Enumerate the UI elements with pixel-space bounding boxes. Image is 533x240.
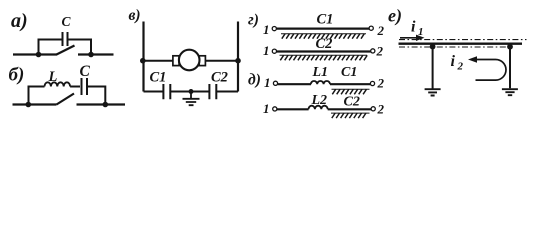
wire bbox=[13, 53, 57, 55]
capacitor C bbox=[63, 32, 68, 46]
wire left vertical bbox=[142, 22, 144, 92]
wire vertical left bbox=[432, 47, 434, 89]
terminal bbox=[272, 27, 276, 31]
ground plane hatch bbox=[331, 112, 370, 114]
wire line bbox=[399, 43, 523, 45]
svg-text:1: 1 bbox=[263, 43, 270, 58]
svg-text:2: 2 bbox=[457, 61, 464, 73]
svg-text:С1: С1 bbox=[317, 12, 334, 28]
switch contact bbox=[57, 94, 75, 105]
ground plane hatch bbox=[332, 88, 370, 90]
current loop arrow i2 bbox=[475, 60, 506, 81]
svg-text:д): д) bbox=[248, 72, 261, 89]
dashed line lower bbox=[399, 46, 511, 48]
ground right bbox=[502, 89, 518, 95]
terminal bbox=[273, 81, 277, 85]
svg-text:С1: С1 bbox=[341, 65, 357, 80]
wire bbox=[330, 83, 370, 85]
svg-text:С: С bbox=[62, 14, 72, 29]
svg-text:2: 2 bbox=[377, 102, 385, 117]
node left bbox=[36, 52, 42, 58]
node right bbox=[103, 102, 109, 108]
inductor L2 bbox=[309, 106, 328, 110]
node right bbox=[235, 58, 241, 64]
capacitor C1 bbox=[163, 84, 170, 99]
inductor L1 bbox=[311, 81, 330, 84]
svg-text:С2: С2 bbox=[344, 95, 360, 110]
svg-text:i: i bbox=[411, 19, 416, 36]
dashed line upper bbox=[399, 39, 527, 41]
svg-text:L1: L1 bbox=[312, 65, 329, 80]
svg-text:L2: L2 bbox=[311, 93, 328, 108]
ground plane hatch bbox=[281, 33, 366, 35]
wire vertical right bbox=[509, 47, 511, 89]
machine M1 bbox=[179, 50, 200, 71]
wire bbox=[144, 60, 174, 62]
wire bbox=[77, 103, 126, 105]
svg-text:1: 1 bbox=[263, 22, 270, 37]
svg-text:б): б) bbox=[9, 65, 25, 86]
wire bbox=[205, 60, 238, 62]
ground bbox=[183, 92, 200, 106]
brush left bbox=[173, 56, 179, 66]
terminal bbox=[272, 49, 276, 53]
wire right vertical bbox=[237, 22, 239, 92]
inductor L bbox=[45, 82, 71, 86]
brush right bbox=[199, 56, 205, 66]
svg-text:2: 2 bbox=[377, 23, 385, 38]
switch contact bbox=[57, 46, 75, 55]
wire loop bbox=[39, 40, 92, 55]
svg-text:е): е) bbox=[388, 6, 402, 27]
svg-text:2: 2 bbox=[376, 44, 384, 59]
ground plane hatch bbox=[280, 54, 368, 56]
svg-text:С: С bbox=[80, 63, 91, 80]
svg-text:С1: С1 bbox=[150, 70, 167, 86]
node left bbox=[430, 44, 436, 50]
ground left bbox=[425, 89, 441, 95]
terminal bbox=[370, 81, 374, 85]
node ground bbox=[189, 89, 194, 94]
capacitor C bbox=[82, 78, 88, 95]
terminal bbox=[371, 107, 375, 111]
terminal bbox=[273, 107, 277, 111]
wire bottom bbox=[144, 91, 239, 93]
wire loop left bbox=[29, 87, 45, 105]
wire bbox=[277, 108, 309, 110]
node right bbox=[507, 44, 513, 50]
svg-text:1: 1 bbox=[264, 75, 271, 90]
node right bbox=[88, 52, 94, 58]
svg-text:2: 2 bbox=[377, 76, 385, 91]
wire loop right bbox=[88, 87, 106, 105]
svg-text:С2: С2 bbox=[211, 70, 228, 86]
wire bbox=[70, 86, 80, 88]
svg-text:С2: С2 bbox=[316, 36, 333, 52]
svg-text:i: i bbox=[451, 53, 456, 70]
node left bbox=[26, 102, 32, 108]
wire line C1 bbox=[277, 27, 369, 29]
wire line C2 bbox=[277, 50, 371, 52]
svg-text:а): а) bbox=[11, 10, 28, 32]
node left bbox=[140, 58, 146, 64]
capacitor C2 bbox=[209, 84, 216, 99]
svg-text:1: 1 bbox=[263, 101, 270, 116]
svg-text:г): г) bbox=[248, 12, 259, 29]
wire bbox=[78, 53, 114, 55]
svg-text:L: L bbox=[48, 69, 58, 85]
terminal bbox=[369, 26, 373, 30]
wire bbox=[278, 83, 311, 85]
terminal bbox=[371, 49, 375, 53]
wire bbox=[328, 108, 371, 110]
current arrow i1 bbox=[400, 37, 418, 39]
wire bbox=[13, 103, 57, 105]
svg-text:в): в) bbox=[129, 7, 141, 24]
